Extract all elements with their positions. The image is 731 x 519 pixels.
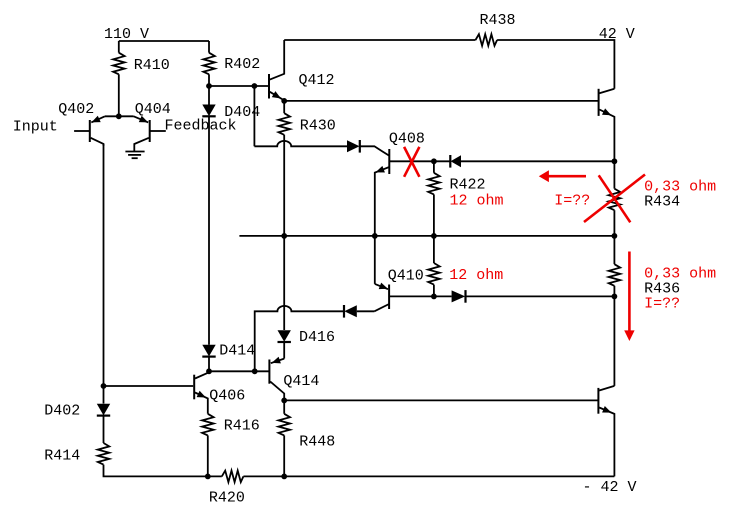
svg-text:110 V: 110 V xyxy=(104,26,149,43)
wire node to Q406 base xyxy=(104,385,194,387)
wire R430 bottom down mid column xyxy=(283,135,285,330)
wire R414 bottom corner xyxy=(104,465,222,477)
node mid right column xyxy=(612,233,618,239)
node left column to Q406 base xyxy=(101,383,107,389)
wire base tap down xyxy=(253,86,255,146)
wire Q412 emitter to output base xyxy=(284,100,598,102)
svg-text:- 42 V: - 42 V xyxy=(583,479,637,496)
node mid emitters column xyxy=(372,233,378,239)
svg-text:Q404: Q404 xyxy=(135,101,171,118)
svg-text:D404: D404 xyxy=(224,104,260,121)
wire collector line hop to Q414 base column xyxy=(255,306,344,371)
wire Q402 collector down left column xyxy=(103,144,105,404)
svg-text:Input: Input xyxy=(13,118,58,135)
svg-text:Q402: Q402 xyxy=(58,101,94,118)
resistor R422 xyxy=(433,161,435,173)
wire node to diode xyxy=(434,160,450,162)
svg-text:Q406: Q406 xyxy=(209,388,245,405)
wire R436 leads xyxy=(613,236,615,264)
svg-text:Q414: Q414 xyxy=(283,373,319,390)
node R402 D404 xyxy=(206,83,212,89)
wire D402 to R414 xyxy=(103,416,105,443)
svg-text:Q410: Q410 xyxy=(388,268,424,285)
node Q414 collector xyxy=(281,398,287,404)
node bottom rail R448 xyxy=(281,474,287,480)
wire Q414 base line xyxy=(209,370,269,372)
svg-text:D416: D416 xyxy=(299,329,335,346)
svg-text:42 V: 42 V xyxy=(599,26,635,43)
red arrow left xyxy=(549,175,587,178)
wire 110V top rail xyxy=(119,40,209,42)
transistor Q412 xyxy=(269,40,284,101)
wire R434 bottom to mid rail xyxy=(613,210,615,236)
wire 42V rail right xyxy=(497,40,614,89)
svg-text:R438: R438 xyxy=(480,12,516,29)
transistor Q402 xyxy=(74,116,105,146)
wire D414 to node xyxy=(208,357,210,371)
svg-text:R448: R448 xyxy=(299,434,335,451)
output transistor bottom xyxy=(598,386,614,477)
transistor Q404 xyxy=(134,116,166,151)
wire R402 bottom to node xyxy=(208,74,210,86)
diode D414 xyxy=(202,345,215,357)
red annotations xyxy=(404,147,645,341)
transistor Q414 xyxy=(269,357,284,401)
mid rail xyxy=(239,235,614,237)
node right column bias xyxy=(612,158,618,164)
wire diode to right column xyxy=(461,160,614,162)
svg-text:R430: R430 xyxy=(300,117,336,134)
wire R430 top lead xyxy=(283,101,285,113)
red arrow down xyxy=(628,252,631,331)
resistor R410 xyxy=(113,53,125,75)
wire lower diode to right column xyxy=(466,295,615,297)
transistor Q410 xyxy=(374,283,434,312)
diode D404 xyxy=(202,105,215,117)
node Q414 base tap xyxy=(252,368,258,374)
wire D416 to Q414 emitter corner xyxy=(283,343,285,359)
wire Q410 collector line with hop xyxy=(357,310,375,312)
transistor Q408 xyxy=(375,149,434,236)
wire R410 top lead xyxy=(118,41,120,53)
resistor R430 xyxy=(279,113,291,135)
node mid R430 column xyxy=(281,233,287,239)
resistor R438 xyxy=(476,34,498,46)
svg-text:Q408: Q408 xyxy=(389,131,425,148)
wire node to lower diode xyxy=(434,295,452,297)
wire 42V rail xyxy=(284,39,475,41)
wire diode to Q408 base xyxy=(360,146,390,156)
svg-text:I=??: I=?? xyxy=(644,295,680,312)
output transistor top xyxy=(599,89,615,162)
svg-text:R422: R422 xyxy=(450,176,486,193)
node lower 12ohm bottom xyxy=(431,294,437,300)
wire D404 cathode down to D414 xyxy=(208,86,210,105)
diode D408 right xyxy=(347,140,360,153)
wire bias line with hop xyxy=(254,141,347,146)
wire to R434 xyxy=(613,161,615,188)
node mid R422 column xyxy=(431,233,437,239)
diode D410b right lower xyxy=(452,290,466,303)
node Q412 emitter xyxy=(281,98,287,104)
red X over R434 xyxy=(599,175,631,222)
svg-text:12 ohm: 12 ohm xyxy=(450,192,504,209)
wire bottom rail xyxy=(243,475,614,477)
svg-text:R420: R420 xyxy=(209,489,245,506)
node base tap xyxy=(252,83,258,89)
node R422 top xyxy=(431,158,437,164)
resistor 12ohm lower xyxy=(433,236,435,263)
node bottom rail R416 xyxy=(205,474,211,480)
node right column lower xyxy=(612,294,618,300)
resistor R434 xyxy=(609,189,621,211)
svg-text:Q412: Q412 xyxy=(299,72,335,89)
svg-text:R410: R410 xyxy=(134,57,170,74)
node emitters Q402/Q404 xyxy=(116,113,122,119)
diode D410 left xyxy=(344,305,357,318)
resistor R448 xyxy=(283,400,285,413)
svg-text:R402: R402 xyxy=(224,56,260,73)
diode D416 xyxy=(278,330,291,342)
ground xyxy=(125,152,144,159)
resistor R436 xyxy=(609,264,621,286)
svg-text:R434: R434 xyxy=(644,194,680,211)
wire node to Q412 base xyxy=(209,85,269,87)
svg-text:R414: R414 xyxy=(44,447,80,464)
svg-text:D402: D402 xyxy=(44,402,80,419)
red X over Q408 collector xyxy=(404,147,419,177)
svg-text:D414: D414 xyxy=(219,342,255,359)
wire right column down to output bottom xyxy=(613,296,615,386)
resistor R416 xyxy=(202,414,214,436)
diode D422 left xyxy=(450,155,461,168)
node D414 xyxy=(206,368,212,374)
wire R402 top lead xyxy=(208,41,210,53)
transistor Q406 xyxy=(194,372,209,414)
resistor R402 xyxy=(203,53,215,75)
svg-text:I=??: I=?? xyxy=(554,193,590,210)
svg-text:12 ohm: 12 ohm xyxy=(449,267,503,284)
resistor R420 xyxy=(222,471,244,483)
resistor R414 xyxy=(98,443,110,465)
diode D402 xyxy=(97,404,110,416)
wire emitter tie bar xyxy=(105,115,134,117)
wire emitter column below mid rail xyxy=(374,236,376,284)
wire Q414 collector to output bottom base xyxy=(284,399,598,401)
svg-text:R416: R416 xyxy=(224,417,260,434)
wire R410 bottom to emitter node xyxy=(118,74,120,116)
